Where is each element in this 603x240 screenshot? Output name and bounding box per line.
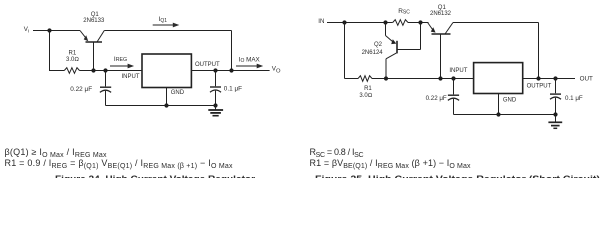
svg-text:2N6132: 2N6132 bbox=[430, 11, 452, 17]
svg-text:2N6124: 2N6124 bbox=[362, 50, 384, 56]
node junction dot at Vi branch bbox=[47, 28, 51, 32]
svg-text:IO MAX: IO MAX bbox=[239, 57, 261, 65]
transistor Q2 2N6124 bbox=[386, 23, 421, 79]
wire Q1 collector top line bbox=[104, 30, 231, 32]
ground symbol left circuit bbox=[208, 106, 223, 116]
svg-text:3.0Ω: 3.0Ω bbox=[359, 93, 372, 99]
wire IN lead bbox=[327, 22, 393, 24]
wire bottom rail right circuit bbox=[454, 114, 556, 116]
wire GND pin right bbox=[498, 94, 500, 115]
wire vertical from Vi junction to R1 row bbox=[49, 31, 51, 71]
wire vertical IN to R1 row bbox=[344, 23, 346, 79]
node junction dot rail/ground right bbox=[553, 112, 557, 116]
regulator U2 box bbox=[474, 63, 523, 94]
wire RSC to Q1 emitter bbox=[408, 22, 429, 24]
svg-text:GND: GND bbox=[171, 90, 185, 96]
svg-text:OUTPUT: OUTPUT bbox=[195, 62, 220, 68]
node junction dot collector/output bbox=[229, 68, 233, 72]
svg-text:R1 = 0.9 / IREG = β(Q1) VBE(Q1: R1 = 0.9 / IREG = β(Q1) VBE(Q1) / IREG M… bbox=[5, 158, 234, 170]
capacitor C1 0.22uF bbox=[100, 71, 111, 106]
wire output line bbox=[191, 70, 269, 72]
node junction dot C2 tap bbox=[213, 68, 217, 72]
svg-text:IQ1: IQ1 bbox=[159, 16, 168, 24]
node junction dot Q1 base right bbox=[438, 76, 442, 80]
wire Vi input lead bbox=[33, 30, 80, 32]
wire vertical collector down to output right bbox=[538, 23, 540, 79]
regulator U1 box bbox=[142, 54, 191, 88]
wire R1 to regulator input right bbox=[372, 78, 474, 80]
node junction dot rail to ground bbox=[213, 103, 217, 107]
node junction dot Q2 emitter branch bbox=[383, 20, 387, 24]
capacitor C2 0.1uF bbox=[210, 71, 221, 106]
node junction dot GND rail right bbox=[496, 112, 500, 116]
svg-text:R1: R1 bbox=[364, 86, 372, 92]
node junction dot Q1 base bbox=[91, 68, 95, 72]
svg-text:OUT: OUT bbox=[580, 75, 593, 82]
svg-text:GND: GND bbox=[503, 98, 517, 104]
svg-text:Figure 24. High Current Voltag: Figure 24. High Current Voltage Regulato… bbox=[55, 174, 256, 178]
svg-text:3.0Ω: 3.0Ω bbox=[66, 57, 79, 63]
svg-text:R1 = βVBE(Q1) / IREG Max (β +1: R1 = βVBE(Q1) / IREG Max (β +1) − IO Max bbox=[310, 158, 472, 170]
wire output line right bbox=[523, 78, 575, 80]
svg-text:VO: VO bbox=[272, 65, 281, 74]
resistor RSC bbox=[393, 20, 408, 26]
svg-text:INPUT: INPUT bbox=[449, 68, 467, 74]
svg-text:0.22 μF: 0.22 μF bbox=[70, 86, 92, 93]
capacitor C4 0.1uF right bbox=[550, 79, 561, 115]
ground symbol right circuit bbox=[548, 115, 562, 129]
wire Q1 collector top line right bbox=[453, 22, 539, 24]
node junction dot Q2 collector bbox=[384, 76, 388, 80]
resistor R1 right (3.0 ohm) bbox=[358, 76, 372, 82]
resistor R1 (3.0 ohm) left circuit bbox=[49, 68, 80, 74]
transistor Q1 2N6132 bbox=[428, 23, 453, 79]
wire R1 row right circuit bbox=[345, 78, 359, 80]
svg-text:IREG: IREG bbox=[114, 56, 127, 63]
svg-text:Q2: Q2 bbox=[374, 42, 383, 48]
node junction dot GND rail bbox=[164, 103, 168, 107]
svg-text:Q1: Q1 bbox=[438, 5, 447, 11]
node junction dot RSC right bbox=[418, 20, 422, 24]
node junction dot IN branch bbox=[342, 20, 346, 24]
transistor Q1 2N6133 bbox=[80, 31, 104, 71]
svg-text:INPUT: INPUT bbox=[122, 74, 140, 80]
node junction dot C3 tap bbox=[451, 76, 455, 80]
svg-text:0.1 μF: 0.1 μF bbox=[565, 95, 583, 102]
svg-text:2N6133: 2N6133 bbox=[83, 18, 105, 24]
wire vertical collector down to output bbox=[231, 31, 233, 71]
capacitor C3 0.22uF right bbox=[448, 79, 459, 115]
wire bottom rail left circuit bbox=[106, 105, 216, 107]
node junction dot C4 tap bbox=[553, 76, 557, 80]
node junction dot collector/output right bbox=[536, 76, 540, 80]
svg-text:OUTPUT: OUTPUT bbox=[527, 84, 552, 90]
arrow IO MAX bbox=[236, 64, 263, 69]
wire GND pin bbox=[166, 88, 168, 106]
svg-text:VI: VI bbox=[24, 26, 29, 34]
arrow IREG bbox=[110, 64, 134, 69]
arrow IQ1 bbox=[153, 23, 180, 28]
wire R1 to regulator input bbox=[80, 70, 143, 72]
svg-text:R1: R1 bbox=[69, 50, 77, 56]
node junction dot C1 tap bbox=[103, 68, 107, 72]
svg-text:0.22 μF: 0.22 μF bbox=[426, 95, 447, 102]
svg-text:Figure 25. High Current Voltag: Figure 25. High Current Voltage Regulato… bbox=[315, 174, 600, 178]
svg-text:0.1 μF: 0.1 μF bbox=[224, 85, 242, 92]
svg-text:RSC: RSC bbox=[398, 8, 410, 16]
svg-text:IN: IN bbox=[318, 18, 324, 25]
